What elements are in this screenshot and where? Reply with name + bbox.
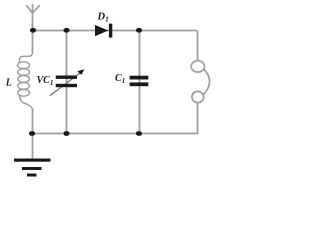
wire top horizontal	[33, 30, 197, 32]
earphone bottom circle	[192, 91, 204, 102]
ground symbol	[14, 159, 51, 177]
svg-text:VC1: VC1	[37, 75, 54, 87]
wire C1 branch vertical	[139, 31, 141, 135]
junction node C1 top	[136, 28, 142, 33]
wire right vertical top (to earphone)	[197, 31, 199, 62]
inductor L coil	[18, 52, 33, 110]
antenna left arm	[26, 5, 32, 13]
earphone top circle	[191, 61, 204, 72]
junction node bottom-left/ground	[29, 131, 35, 136]
svg-text:C1: C1	[115, 73, 125, 85]
svg-text:D1: D1	[97, 11, 109, 23]
wire left vertical (inductor to bottom)	[32, 109, 34, 134]
diode D1	[95, 24, 112, 38]
capacitor VC1 arrow	[50, 69, 84, 95]
capacitor VC1 plates	[56, 76, 77, 88]
junction node VC1 bottom	[63, 131, 69, 136]
junction node VC1 top	[63, 28, 69, 33]
antenna mast	[32, 4, 34, 31]
earphone headband arc	[203, 69, 209, 95]
wire right vertical bottom (from earphone)	[197, 102, 199, 134]
svg-text:L: L	[5, 78, 12, 89]
wire bottom horizontal	[32, 133, 198, 135]
wire ground lead	[32, 134, 34, 159]
wire left vertical (antenna to inductor)	[32, 31, 34, 54]
capacitor C1 plates	[130, 76, 149, 87]
junction node C1 bottom	[136, 131, 142, 136]
wire VC1 branch vertical	[66, 31, 68, 135]
antenna right arm	[33, 5, 40, 13]
junction node antenna/top-left	[30, 28, 36, 33]
